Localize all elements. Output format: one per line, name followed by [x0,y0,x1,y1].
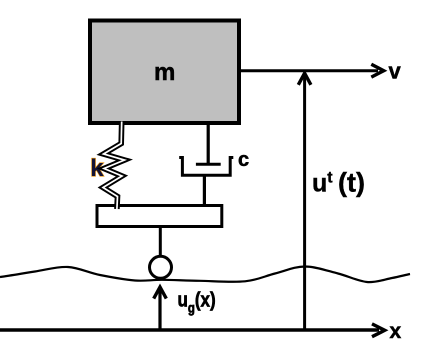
spring k [103,122,125,210]
wheel [150,256,172,278]
damper piston plate [196,163,221,166]
svg-text:v: v [389,59,402,84]
mass block m [90,21,239,124]
wire v-line [241,69,378,72]
bottom axis [0,328,379,331]
damper top rod [207,125,210,164]
damper cup [179,158,233,176]
svg-text:ut (t): ut (t) [312,168,365,198]
svg-text:x: x [390,320,402,343]
ground wave [0,267,410,283]
damper bottom rod [203,175,206,205]
svg-text:m: m [154,59,175,86]
svg-text:c: c [238,149,249,171]
svg-text:ug(x): ug(x) [178,288,216,316]
arrowhead v [371,64,383,77]
link bar to wheel [159,228,162,257]
base bar [97,206,222,227]
arrowhead u_g up [154,287,167,299]
u^t vertical line [303,76,306,330]
arrowhead x axis [372,324,385,337]
arrow u_g shaft [158,290,161,330]
arrowhead u^t up [298,73,311,85]
